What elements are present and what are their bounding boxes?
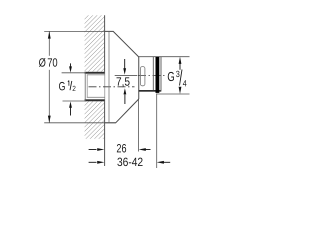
dim 36-42 left arrow (89, 161, 97, 163)
wall hatching lower (85, 101, 105, 139)
outlet centerline (115, 75, 138, 77)
G1/2 label (59, 81, 75, 92)
G3/4 dimension line upper + up arrowhead (179, 63, 181, 70)
dimension Ø70 top extension (44, 30, 113, 32)
G3/4 label (168, 70, 187, 87)
G1/2 down arrow (70, 63, 72, 68)
dim 26 extension line (138, 100, 140, 152)
dim 26 right arrow (145, 149, 151, 151)
G3/4 dimension bottom extension (156, 93, 189, 95)
Ø70 label (39, 58, 57, 67)
outlet face line (160, 57, 162, 92)
G1/2 up arrow (70, 107, 72, 116)
dim 36-42 extension line (156, 94, 158, 169)
union nut bottom edge (139, 90, 161, 92)
dimension Ø70 line (48, 31, 50, 55)
G1/2 top reference line (62, 72, 86, 74)
36-42 label (117, 158, 142, 166)
dim 36-42 right arrow (163, 161, 170, 163)
wrench flat capsule (140, 67, 145, 86)
G3/4 dimension line lower + down arrowhead (179, 88, 181, 90)
Ø70 up arrowhead (48, 31, 51, 38)
26 label (117, 144, 126, 152)
7,5 offset down arrow (124, 59, 126, 69)
wall hatching upper (85, 15, 105, 72)
inlet centerline (89, 86, 135, 88)
flange cone outline (105, 31, 139, 122)
7,5 label (117, 77, 130, 87)
union nut body top edge + G3/4 top extension line (139, 56, 190, 58)
7,5 offset up arrow (124, 95, 126, 105)
nut groove line (152, 57, 154, 90)
wall surface line (104, 15, 106, 166)
G1/2 male thread body (85, 72, 105, 102)
Ø70 down arrowhead (48, 116, 51, 123)
flange inner edge line (108, 32, 110, 123)
dimension Ø70 bottom extension (44, 122, 116, 124)
G1/2 bottom reference line (63, 100, 87, 102)
seal ring black band (156, 57, 160, 93)
dim 26 left arrow (89, 149, 97, 151)
